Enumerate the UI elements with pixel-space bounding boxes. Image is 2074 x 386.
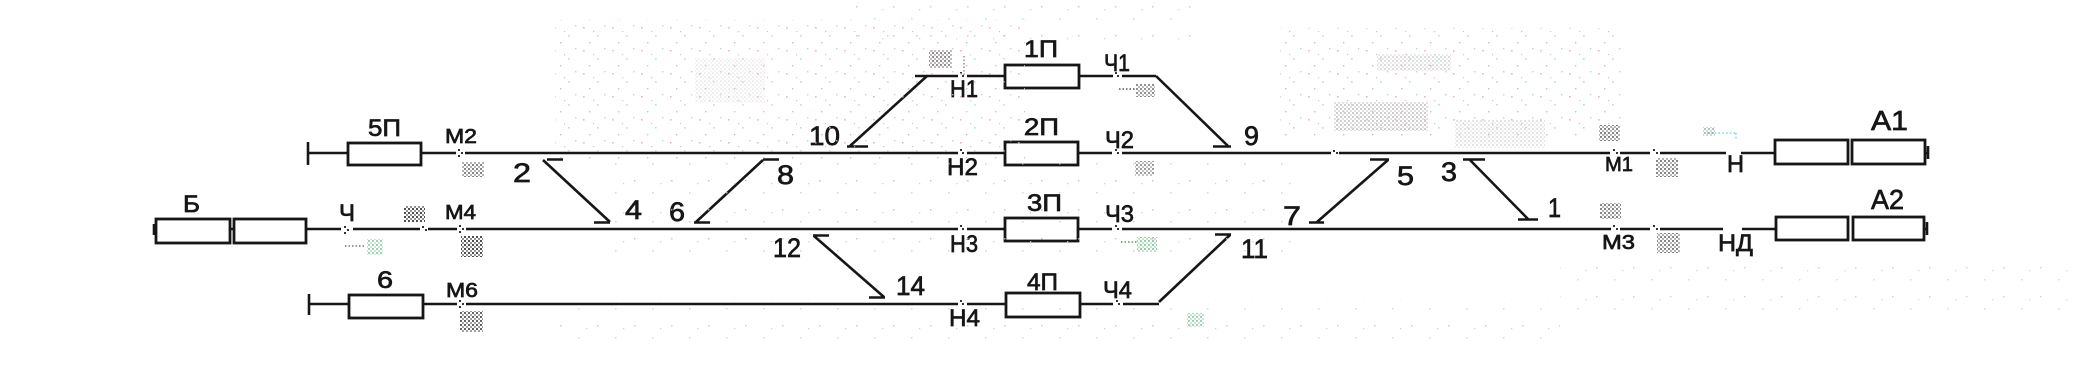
speckle field right of centre	[1280, 28, 1625, 140]
noise blob below М2	[462, 162, 484, 177]
speckle field center	[600, 162, 1300, 257]
switch 2-4 diagonal	[543, 160, 610, 223]
svg-text:М4: М4	[445, 202, 476, 224]
noise blob above М3	[1600, 203, 1621, 219]
noise blob above М1	[1599, 125, 1620, 141]
noise patch above Н	[1707, 133, 1736, 140]
switch 7-5 diagonal	[1309, 160, 1389, 223]
svg-text:А1: А1	[1871, 105, 1908, 136]
svg-text:Ч4: Ч4	[1103, 277, 1132, 304]
joint track3 x424	[422, 226, 424, 228]
joint Ч3	[1115, 225, 1117, 227]
switch 11 diagonal	[1159, 235, 1231, 303]
noise dotted line below Ч joint	[345, 245, 365, 247]
wire track2 main line	[308, 152, 1775, 155]
section box 3П	[1005, 218, 1078, 241]
svg-text:Ч: Ч	[339, 200, 355, 227]
section box 6	[349, 295, 423, 318]
svg-text:А2: А2	[1871, 184, 1904, 215]
joint М2	[458, 149, 460, 151]
joint М4	[459, 225, 461, 227]
switch 6-8 diagonal	[694, 160, 779, 223]
svg-text:9: 9	[1244, 121, 1259, 151]
switch 10 diagonal	[847, 76, 927, 147]
noise blob above Н1	[929, 50, 952, 68]
svg-text:3: 3	[1441, 157, 1457, 187]
svg-text:2: 2	[513, 158, 531, 188]
joint Н3	[960, 225, 962, 227]
joint Н2	[960, 149, 962, 151]
joint М1 a	[1613, 149, 1615, 151]
noise blob green below Ч	[367, 239, 383, 255]
wire track3 main line	[156, 228, 1776, 231]
noise blob right of Ч2	[1135, 161, 1154, 176]
noise blob left of М4 above line	[404, 206, 425, 222]
section box 2П	[1005, 142, 1078, 165]
track3 right end tick	[1924, 222, 1928, 235]
track2 right end tick	[1925, 146, 1929, 159]
section box А1 left	[1775, 140, 1848, 164]
speckle field bottom band	[560, 300, 1560, 342]
switch 9 diagonal	[1156, 76, 1231, 147]
dotted line right of Ч3	[1121, 241, 1137, 243]
dotted line right of Ч1	[1119, 88, 1136, 90]
wire track1 top line	[915, 75, 1156, 78]
track2 left end tick	[307, 142, 310, 165]
joint Ч2	[1115, 149, 1117, 151]
svg-text:Б: Б	[183, 191, 200, 218]
joint Ч	[344, 226, 346, 228]
joint track2 x1335	[1333, 150, 1335, 152]
joint Н4	[960, 300, 962, 302]
track4 left end tick	[308, 294, 311, 315]
joint Ч4	[1116, 300, 1118, 302]
track3 left end tick	[153, 224, 156, 235]
svg-text:2П: 2П	[1024, 114, 1059, 141]
section box А2 left	[1776, 217, 1848, 240]
joint М6	[459, 300, 461, 302]
noise blob below М6	[460, 311, 483, 332]
speckle field upper middle	[555, 20, 1025, 160]
svg-text:Ч2: Ч2	[1105, 127, 1134, 154]
section box 1П	[1005, 65, 1079, 88]
noise patch lighter above	[1377, 54, 1451, 71]
speckle field top band	[850, 0, 1200, 42]
joint Н1	[960, 72, 962, 74]
noise dotted tick above Н1 joint	[963, 56, 965, 75]
svg-text:4П: 4П	[1027, 269, 1058, 296]
section box Б left	[156, 219, 230, 243]
wire track4 bottom line	[309, 303, 1159, 306]
noise patch above track2 mid-right	[1334, 102, 1428, 131]
joint М1 b	[1653, 149, 1655, 151]
section box 5П	[348, 143, 421, 165]
section box А1 right	[1852, 140, 1925, 164]
switch 12-14 diagonal	[813, 236, 885, 298]
svg-text:14: 14	[896, 271, 925, 301]
noise patch upper mid	[695, 58, 765, 103]
noise blob right of Ч3	[1137, 237, 1157, 252]
noise blob right of М3 below line	[1657, 233, 1680, 253]
joint М3 a	[1613, 225, 1615, 227]
svg-text:Н: Н	[1727, 151, 1744, 178]
noise patch centre-left of М1	[1455, 120, 1545, 148]
svg-text:М2: М2	[445, 126, 477, 148]
svg-text:М6: М6	[446, 280, 478, 302]
noise blob below Ч4	[1187, 313, 1204, 327]
noise blob right of М1 below line	[1656, 158, 1678, 177]
svg-text:6: 6	[377, 267, 393, 294]
section box 4П	[1006, 293, 1080, 317]
noise blob below М4	[461, 236, 483, 257]
svg-text:М1: М1	[1605, 154, 1633, 176]
section box Б right	[234, 219, 306, 243]
svg-text:1: 1	[1548, 193, 1561, 223]
svg-text:5П: 5П	[368, 115, 401, 142]
svg-text:5: 5	[1397, 161, 1414, 191]
joint М3 b	[1653, 225, 1655, 227]
section box А2 right	[1853, 217, 1924, 240]
switch 3-1 diagonal	[1463, 160, 1538, 220]
speckle field lower right	[1560, 252, 2070, 318]
noise blob right of Ч1	[1136, 84, 1155, 97]
svg-text:М3: М3	[1602, 232, 1635, 254]
joint Ч1	[1115, 72, 1117, 74]
